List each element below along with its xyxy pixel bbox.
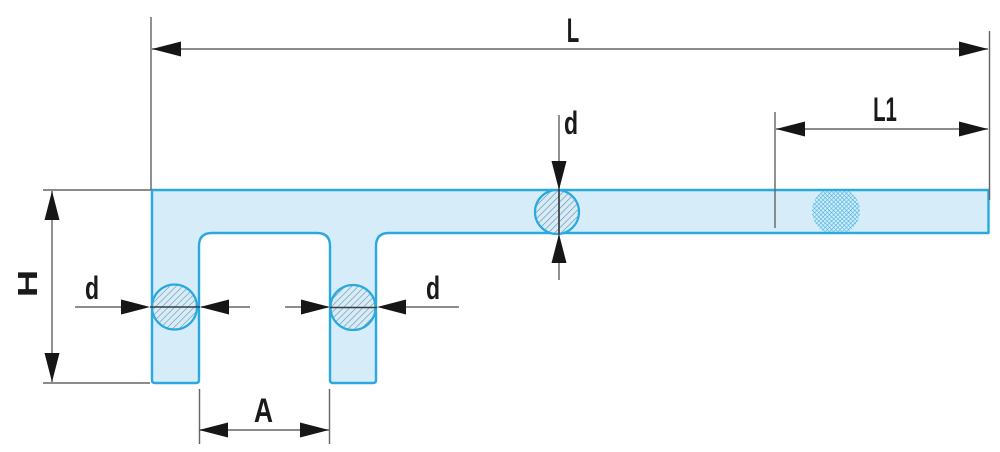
svg-text:H: H bbox=[13, 270, 44, 297]
svg-text:d: d bbox=[85, 270, 99, 306]
svg-text:A: A bbox=[254, 392, 273, 430]
svg-text:L1: L1 bbox=[873, 91, 897, 129]
svg-text:L: L bbox=[567, 12, 579, 50]
svg-text:d: d bbox=[426, 270, 440, 306]
svg-text:d: d bbox=[564, 105, 578, 141]
